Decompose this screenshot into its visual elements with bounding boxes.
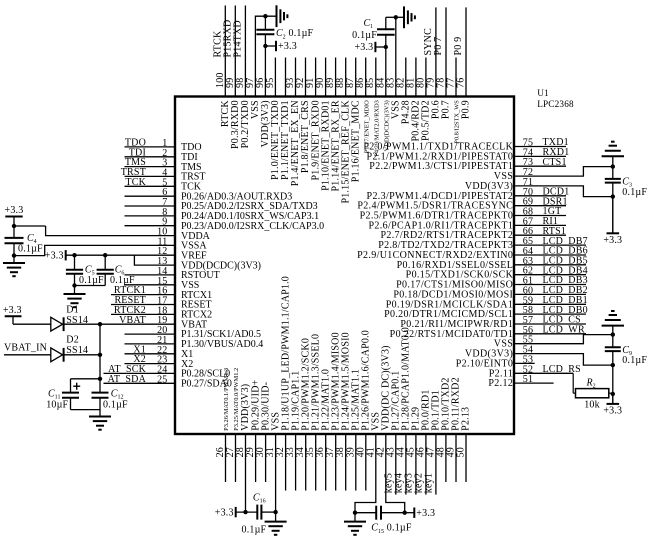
svg-text:P3.26/MAT0.1/PWM1.3: P3.26/MAT0.1/PWM1.3 — [223, 368, 230, 431]
power +3.3 (pin 84) — [354, 42, 385, 53]
pin 34 P1.20/PWM1.2/SCK0 (bottom) — [295, 338, 311, 491]
svg-text:+3.3: +3.3 — [45, 250, 64, 261]
pin 92 P1.8/ENET_CRS (top) — [295, 58, 311, 174]
VBAT rail wire — [99, 324, 101, 392]
pin 48 P0.10/TXD2 (bottom) — [435, 377, 451, 482]
svg-text:76: 76 — [456, 78, 467, 88]
pin 19 VBAT (left) — [100, 315, 207, 331]
pin 89 P1.14/ENET_RX_ER (top) — [325, 58, 341, 192]
svg-text:+3.3: +3.3 — [278, 41, 297, 52]
junction node pin28/C16 — [243, 510, 247, 514]
pin 60 P0.18/DCD1/MOSI0/MOSI (right) — [393, 285, 587, 300]
svg-text:0.1µF: 0.1µF — [79, 275, 104, 286]
svg-text:+3.3: +3.3 — [5, 205, 24, 216]
pin 90 P1.10/ENET_RXD01 (top) — [315, 58, 331, 191]
pin 17 RESET (left) — [111, 295, 212, 311]
junction node C2 bottom — [263, 44, 267, 48]
pin 56 P0.22/RTS1/MCIDAT0/TD1 (right) — [390, 325, 586, 340]
pin 69 P2.4/PWM1.5/DSR1/TRACESYNC (right) — [357, 196, 567, 211]
ground (VSSA) — [3, 256, 25, 277]
pin 42 VDD(DC DC)(3V3) (bottom) — [375, 345, 404, 512]
pin 95 P1.0/ENET_TXD0 (top) — [265, 58, 281, 180]
junction node pin42/C15 — [403, 511, 407, 515]
pin 37 P1.23/PWM1.4/MISO0 (bottom) — [325, 332, 341, 490]
pin 63 P0.16/RXD1/SSEL0/SSEL (right) — [397, 256, 588, 271]
pin 85 P4.29/MAT2.0/RXD3 (top) — [365, 58, 380, 157]
C11 designator — [48, 388, 60, 400]
IC U1 LPC2368 body — [175, 97, 514, 435]
svg-text:51: 51 — [523, 374, 533, 385]
ground (VSS pin 31) — [265, 512, 287, 535]
pin 23 X2 (left) — [125, 354, 194, 370]
pin 75 P2.0/PWM1.1/TXD1/TRACECLK (right) — [363, 137, 569, 152]
svg-text:0.1µF: 0.1µF — [352, 30, 377, 41]
pin 97 VSS (top) — [245, 16, 277, 119]
pin 83 VSS (top) — [385, 17, 401, 119]
power +3.3 (pin 28) — [215, 507, 236, 518]
pin 62 P0.15/TXD1/SCK0/SCK (right) — [406, 265, 588, 280]
pin 30 P0.30/UID- (bottom) — [255, 382, 271, 482]
C6 designator — [115, 265, 125, 277]
svg-text:D2: D2 — [66, 335, 79, 346]
pin 80 P0.5/TD2 (top) — [415, 58, 431, 141]
pin 36 P1.22/MAT1.0 (bottom) — [315, 369, 331, 491]
svg-text:P1.17/ENET_MDIO: P1.17/ENET_MDIO — [363, 100, 370, 153]
pin 44 P1.28/PCAP1.0/MAT0.0 (bottom) — [393, 327, 411, 495]
pin 20 P1.31/SCK1/AD0.5 (left) — [125, 325, 262, 340]
capacitor C5 — [66, 255, 83, 285]
svg-text:10µF: 10µF — [46, 400, 68, 411]
pin 77 P0.8/I2STX_WS (top) — [446, 58, 461, 144]
C4 value — [18, 244, 43, 255]
pin 32 P1.18/U1UP_LED/PWM1.1/CAP1.0 (bottom) — [275, 276, 291, 490]
pin 11 VSSA (left) — [14, 236, 207, 255]
pin 57 P0.21/RI1/MCIPWR/RD1 (right) — [400, 315, 586, 330]
pin 6 P0.26/AD0.3/AOUT.RXD3 (left) — [125, 187, 293, 202]
C5 value — [79, 275, 104, 286]
pin 46 P0.0/RD1 (bottom) — [413, 389, 431, 494]
svg-text:95: 95 — [265, 78, 276, 88]
junction node C9 top — [611, 332, 615, 336]
R2 value 10k — [584, 400, 600, 411]
pin 72 VSS (right) — [494, 167, 613, 183]
pin 33 P1.19/CAP1.1 (bottom) — [285, 371, 301, 491]
svg-text:0.1µF: 0.1µF — [387, 523, 412, 534]
D1 designator — [66, 305, 79, 316]
power +3.3 (pin 54, R2) — [603, 394, 622, 417]
pin 12 VREF (left) — [66, 246, 207, 261]
svg-text:VBAT: VBAT — [119, 315, 146, 326]
junction node C2 top — [263, 14, 267, 18]
svg-text:0.1µF: 0.1µF — [103, 400, 128, 411]
junction node C9 bottom — [611, 363, 615, 367]
C15 designator — [371, 523, 384, 535]
svg-text:+3.3: +3.3 — [603, 235, 622, 246]
svg-text:0.1µF: 0.1µF — [242, 525, 267, 536]
capacitor C2 — [256, 16, 274, 46]
power +3.3 (pin 42) — [405, 508, 436, 519]
svg-text:+3.3: +3.3 — [215, 507, 234, 518]
svg-text:P0 9: P0 9 — [453, 37, 464, 56]
pin 2 TDI (left) — [125, 147, 198, 163]
D2 designator — [66, 335, 79, 346]
wire C1 top to VSS node — [386, 16, 396, 18]
power +3.3 (D1 anode) — [3, 305, 51, 324]
pin 81 P0.4/RD2 (top) — [405, 58, 421, 142]
junction node C4 bottom — [12, 253, 16, 257]
diode D2 SS14 — [51, 348, 100, 362]
wire +3.3 to pin 10 jog — [14, 225, 46, 227]
pin 50 P2.13 (bottom) — [456, 407, 472, 482]
pin 61 P0.17/CTS1/MISO0/MISO (right) — [396, 275, 588, 290]
capacitor C16 — [257, 505, 275, 520]
pin 67 P2.6/PCAP1.0/RI1/TRACEPKT1 (right) — [369, 216, 566, 231]
ground (VSS pin 41) — [344, 513, 366, 535]
C4 designator — [27, 233, 37, 245]
C12 value — [103, 400, 128, 411]
pin 21 P1.30/VBUS/AD0.4 (left) — [125, 335, 264, 350]
pin 15 VSS (left) — [125, 276, 200, 291]
pin 54 VDD(3V3) (right) — [465, 345, 613, 366]
C2 value label — [276, 28, 314, 40]
D2 value SS14 — [66, 345, 88, 356]
ground (C11 C12) — [89, 398, 111, 430]
svg-text:50: 50 — [456, 447, 467, 457]
pin 3 TMS (left) — [125, 157, 202, 173]
svg-text:LCD_WR: LCD_WR — [543, 325, 585, 336]
ground (VSS pin 97, top) — [277, 5, 288, 27]
svg-text:0.1µF: 0.1µF — [289, 28, 314, 39]
pin 52 P2.11 (right) — [489, 364, 581, 379]
junction node VBAT/D1 — [98, 322, 102, 326]
svg-text:TCK: TCK — [125, 177, 146, 188]
pin 55 VSS (right) — [494, 335, 613, 350]
capacitor C1 — [377, 17, 395, 47]
pin 99 P0.3/RXD0 (top) — [222, 6, 241, 149]
pin 22 X1 (left) — [125, 344, 194, 360]
pin 26 P3.26/MAT0.1/PWM1.3 (bottom) — [215, 368, 230, 482]
junction node C1 top — [394, 15, 398, 19]
pin 53 P2.10/EINT0 (right) — [456, 354, 535, 369]
resistor R2 — [573, 373, 613, 398]
pin 79 P0.6 (top) — [423, 7, 442, 119]
pin 18 RTCX2 (left) — [111, 305, 212, 321]
pin 40 P1.26/PWM1.6/CAP0.0 (bottom) — [355, 330, 371, 490]
junction node C5/C6 ground — [72, 283, 76, 287]
junction node D2/rail — [98, 353, 102, 357]
svg-text:+3.3: +3.3 — [603, 406, 622, 417]
power +3.3 (VREF bus) — [45, 250, 66, 261]
pin 7 P0.25/AD0.2/I2SRX_SDA/TXD3 (left) — [125, 197, 318, 212]
pin 41 VSS (bottom) — [355, 412, 382, 513]
pin 91 P1.9/ENET_RXD0 (top) — [305, 58, 321, 181]
pin 9 P0.23/AD0.0/I2SRX_CLK/CAP3.0 (left) — [125, 217, 325, 232]
pin 16 RTCX1 (left) — [111, 285, 212, 301]
pin 71 VDD(3V3) (right) — [465, 177, 613, 197]
svg-text:25: 25 — [157, 374, 167, 385]
power +3.3 (VDDA) — [5, 205, 24, 226]
svg-text:0.1µF: 0.1µF — [622, 187, 647, 198]
pin 68 P2.5/PWM1.6/DTR1/TRACEPKT0 (right) — [360, 206, 566, 221]
pin 100 RTCK (top) — [212, 6, 231, 128]
pin 70 P2.3/PWM1.4/DCD1/PIPESTAT2 (right) — [367, 187, 570, 202]
pin 14 RSTOUT (left) — [125, 266, 220, 281]
svg-text:P0 7: P0 7 — [433, 37, 444, 56]
svg-text:SS14: SS14 — [66, 345, 88, 356]
pin 35 P1.21/PWM1.3/SSEL0 (bottom) — [305, 334, 321, 491]
capacitor C11 (10uF polarized) — [62, 379, 100, 410]
svg-text:P0.8/I2STX_WS: P0.8/I2STX_WS — [454, 100, 461, 144]
svg-text:P0.7: P0.7 — [441, 100, 452, 119]
pin 13 VDD(DCDC)(3V3) (left) — [134, 255, 261, 271]
junction node pin41/C15 — [353, 511, 357, 515]
svg-text:LPC2368: LPC2368 — [537, 99, 574, 109]
pin 4 TRST (left) — [121, 167, 206, 183]
pin 51 P2.12 (right) — [488, 374, 553, 389]
capacitor C15 — [355, 506, 405, 520]
R2 designator — [586, 377, 596, 389]
pin 86 P1.17/ENET_MDIO (top) — [355, 58, 370, 154]
svg-text:VBAT_IN: VBAT_IN — [4, 343, 47, 354]
pin 59 P0.19/DSR1/MCICLK/SDA1 (right) — [386, 295, 588, 310]
pin 8 P0.24/AD0.1/I0SRX_WS/CAP3.1 (left) — [125, 207, 320, 222]
C11 value 10uF — [46, 400, 68, 411]
svg-text:+3.3: +3.3 — [354, 42, 373, 53]
svg-text:LCD_RS: LCD_RS — [543, 364, 581, 375]
D1 value SS14 — [66, 315, 88, 326]
power +3.3 (pin 96) — [265, 41, 297, 52]
capacitor C4 — [5, 226, 24, 256]
pin 88 P1.15/ENET_REF_CLK (top) — [335, 58, 351, 204]
svg-text:P14TXD: P14TXD — [232, 20, 243, 57]
C9 value label — [622, 345, 647, 366]
pin 93 P1.4/ENET_EX_EN (top) — [285, 58, 301, 187]
pin 31 VSS (bottom) — [265, 412, 281, 512]
pin 84 VDD(DCDC)(3V3) (top) — [375, 47, 390, 151]
svg-text:SS14: SS14 — [66, 315, 88, 326]
ground (VSS pin 72) — [602, 142, 624, 167]
pin 94 P1.1/ENET_TXD1 (top) — [280, 58, 291, 180]
svg-text:VDD(DCDC)(3V3): VDD(DCDC)(3V3) — [384, 100, 391, 151]
C12 designator — [111, 388, 124, 400]
svg-text:CTS1: CTS1 — [543, 157, 567, 168]
pin 76 P0.9 (top) — [453, 7, 472, 119]
pin 5 TCK (left) — [125, 177, 202, 193]
junction node rail/C11 — [98, 377, 102, 381]
pin 25 P0.27/SDA0 (left) — [104, 374, 232, 390]
junction node C3 bottom — [611, 194, 615, 198]
svg-text:U1: U1 — [537, 88, 549, 98]
junction node pin31/C16 — [273, 510, 277, 514]
capacitor C6 — [75, 255, 114, 285]
pin 39 P1.25/MAT1.1 (bottom) — [345, 369, 361, 491]
ground (VSS pin 55) — [602, 311, 624, 335]
pin 29 P0.29/UID+ (bottom) — [245, 379, 261, 482]
IC reference designator U1 — [537, 88, 549, 98]
svg-text:0.1µF: 0.1µF — [622, 355, 647, 366]
C15 value — [387, 523, 412, 534]
pin 1 TDO (left) — [125, 138, 202, 154]
pin 73 P2.2/PWM1.3/CTS1/PIPESTAT1 (right) — [369, 157, 566, 172]
pin 64 P2.9/U1CONNECT/RXD2/EXTIN0 (right) — [357, 246, 588, 261]
svg-text:0.1µF: 0.1µF — [18, 244, 43, 255]
svg-text:key1: key1 — [423, 473, 434, 493]
pin 58 P0.20/DTR1/MCICMD/SCL1 (right) — [384, 305, 588, 320]
pin 27 P3.25/MAT0.0/PWM1.2 (bottom) — [225, 368, 240, 482]
C16 designator — [253, 492, 266, 504]
junction node R2/+3.3 — [611, 392, 615, 396]
junction node C3 top — [611, 164, 615, 168]
svg-text:P0.9: P0.9 — [461, 100, 472, 119]
capacitor C12 — [92, 393, 109, 398]
junction node C5 top — [72, 253, 76, 257]
net label VBAT_IN — [4, 343, 47, 354]
junction node C4 top — [12, 224, 16, 228]
svg-text:0.1µF: 0.1µF — [110, 275, 135, 286]
wire +3.3 to C16 — [236, 511, 258, 513]
pin 78 P0.7 (top) — [433, 7, 452, 119]
svg-text:P1.30/VBUS/AD0.4: P1.30/VBUS/AD0.4 — [181, 339, 263, 350]
pin 74 P2.1/PWM1.2/RXD1/PIPESTAT0 (right) — [367, 147, 570, 162]
svg-text:+3.3: +3.3 — [416, 508, 435, 519]
C16 value — [242, 525, 267, 536]
IC part value LPC2368 — [537, 99, 574, 109]
svg-text:P2.13: P2.13 — [461, 407, 472, 431]
capacitor C3 — [605, 167, 621, 197]
svg-text:P2.12: P2.12 — [488, 378, 513, 389]
svg-text:D1: D1 — [66, 305, 79, 316]
ground (VSS pin 83, top) — [396, 6, 415, 28]
pin 38 P1.24/PWM1.5/MOSI0 (bottom) — [335, 332, 351, 490]
C1 value label — [352, 18, 377, 41]
ground (C5 C6) — [64, 286, 86, 308]
svg-text:P3.25/MAT0.0/PWM1.2: P3.25/MAT0.0/PWM1.2 — [233, 368, 240, 431]
pin 45 P1.29 (bottom) — [403, 407, 421, 495]
pin 66 P2.7/RD2/RTS1/TRACEPKT2 (right) — [380, 226, 566, 241]
C6 value — [110, 275, 135, 286]
pin 47 P0.1/TD1 (bottom) — [423, 390, 441, 495]
pin 87 P1.16/ENET_MDC (top) — [345, 58, 361, 183]
pin 98 P0.2/TXD0 (top) — [232, 6, 251, 149]
C5 designator — [85, 265, 95, 277]
pin 28 VDD(3V3) (bottom) — [235, 384, 251, 512]
wire C9 bottom to +3.3 rail — [612, 365, 614, 394]
wire VBAT_IN — [4, 354, 51, 356]
pin 82 P4.28 (top) — [395, 58, 411, 125]
C3 value label — [622, 177, 647, 198]
svg-text:P2.2/PWM1.3/CTS1/PIPESTAT1: P2.2/PWM1.3/CTS1/PIPESTAT1 — [369, 161, 513, 172]
pin 43 P1.27/CAP0.1 (bottom) — [383, 371, 401, 495]
pin 49 P0.11/RXD2 (bottom) — [446, 377, 462, 482]
svg-text:+3.3: +3.3 — [3, 305, 22, 316]
svg-text:10k: 10k — [584, 400, 600, 411]
pin 96 VDD(3V3) (top) — [255, 46, 271, 147]
pin 65 P2.8/TD2/TXD2/TRACEPKT3 (right) — [378, 236, 588, 251]
junction node C6 top — [103, 253, 107, 257]
svg-text:P4.29/MAT2.0/RXD3: P4.29/MAT2.0/RXD3 — [373, 100, 380, 156]
capacitor C9 — [605, 335, 621, 366]
svg-text:P1.16/ENET_MDC: P1.16/ENET_MDC — [350, 100, 361, 182]
diode D1 SS14 — [51, 317, 100, 331]
pin 10 VDDA (left) — [46, 226, 211, 242]
junction node C1 bottom — [384, 45, 388, 49]
pin 24 P0.28/SCL0 (left) — [104, 364, 231, 380]
power +3.3 (pin 71) — [603, 197, 622, 246]
svg-text:AT_SDA: AT_SDA — [108, 374, 147, 385]
